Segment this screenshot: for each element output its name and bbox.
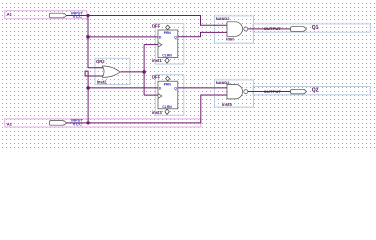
svg-text:PRN: PRN (164, 31, 172, 35)
svg-text:CLRN: CLRN (162, 54, 172, 58)
svg-text:inst: inst (226, 37, 234, 42)
svg-text:inst2: inst2 (97, 80, 107, 85)
svg-text:CLRN: CLRN (162, 105, 172, 109)
svg-text:DFF: DFF (152, 23, 161, 28)
svg-text:DFF: DFF (152, 75, 161, 80)
svg-text:OUTPUT: OUTPUT (264, 89, 282, 94)
svg-text:A1: A1 (7, 12, 13, 17)
svg-text:inst3: inst3 (152, 110, 162, 115)
svg-text:Q1: Q1 (312, 25, 319, 31)
svg-text:VCC: VCC (73, 123, 83, 127)
svg-text:PRN: PRN (164, 82, 172, 86)
svg-text:inst5: inst5 (222, 102, 232, 107)
svg-text:NAND2: NAND2 (216, 80, 231, 85)
svg-text:inst1: inst1 (152, 58, 162, 63)
svg-text:OR2: OR2 (96, 59, 105, 64)
svg-text:Q: Q (174, 36, 177, 40)
svg-text:A2: A2 (7, 122, 13, 127)
svg-text:Q: Q (174, 87, 177, 91)
svg-text:NAND2: NAND2 (216, 16, 231, 21)
svg-text:OUTPUT: OUTPUT (264, 26, 282, 31)
svg-text:Q2: Q2 (312, 88, 319, 94)
svg-text:VCC: VCC (73, 15, 83, 19)
